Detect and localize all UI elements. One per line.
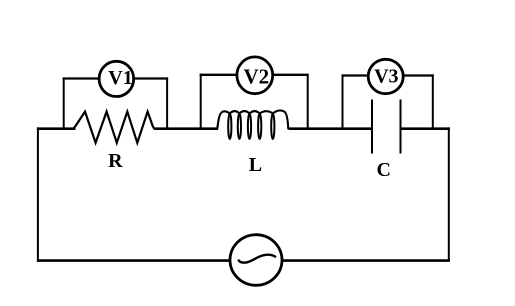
resistor R <box>74 112 158 143</box>
wire: V2 branch left vertical <box>200 74 202 130</box>
wire: right vertical of main loop <box>448 127 450 261</box>
AC source <box>230 235 282 286</box>
svg-text:V2: V2 <box>243 64 269 88</box>
capacitor C left plate <box>371 100 373 154</box>
wire: top main wire between resistor and inductor <box>155 127 219 130</box>
wire: V1 branch left vertical <box>63 77 65 129</box>
wire: left vertical of main loop <box>37 127 39 261</box>
svg-text:V3: V3 <box>374 65 398 87</box>
svg-text:C: C <box>377 159 391 181</box>
svg-text:V1: V1 <box>108 67 132 89</box>
wire: bottom wire right of AC source <box>282 259 451 262</box>
wire: V3 branch top right horizontal <box>403 74 434 76</box>
wire: V1 branch right vertical <box>166 77 168 129</box>
wire: top main wire between inductor and capacitor <box>289 127 373 130</box>
wire: V1 branch top left horizontal <box>63 77 100 79</box>
wire: V3 branch top left horizontal <box>342 74 369 76</box>
wire: top main wire segment from left corner to resistor <box>37 127 76 130</box>
wire: V2 branch top left horizontal <box>200 74 237 76</box>
capacitor C right plate <box>400 100 402 154</box>
wire: V2 branch top right horizontal <box>273 74 309 76</box>
wire: V2 branch right vertical <box>307 74 309 130</box>
voltmeter V1 <box>99 61 134 96</box>
wire: top main wire from capacitor to right corner <box>401 127 451 130</box>
wire: V3 branch left vertical <box>342 74 344 129</box>
voltmeter V2 <box>237 57 273 94</box>
svg-text:L: L <box>249 154 262 176</box>
inductor L <box>217 110 288 129</box>
wire: V1 branch top right horizontal <box>134 77 168 79</box>
wire: V3 branch right vertical <box>432 74 434 129</box>
voltmeter V3 <box>368 59 403 93</box>
wire: bottom wire left of AC source <box>37 259 231 262</box>
svg-text:R: R <box>108 150 123 172</box>
